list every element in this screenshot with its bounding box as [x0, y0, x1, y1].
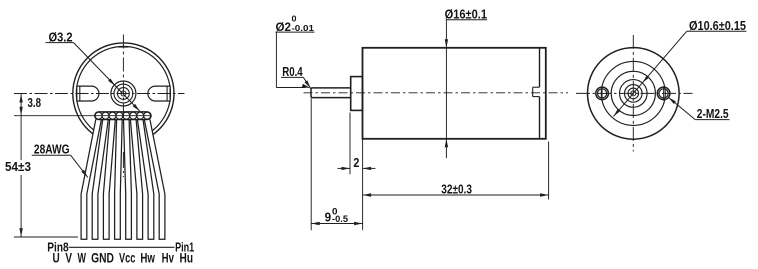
svg-text:Ø10.6±0.15: Ø10.6±0.15	[689, 18, 746, 33]
svg-text:54±3: 54±3	[5, 159, 31, 174]
svg-text:V: V	[65, 251, 72, 266]
svg-text:U: U	[53, 251, 60, 266]
svg-text:9: 9	[325, 210, 332, 225]
svg-text:28AWG: 28AWG	[34, 142, 70, 157]
svg-text:3.8: 3.8	[28, 95, 42, 110]
svg-text:2-M2.5: 2-M2.5	[697, 106, 729, 121]
svg-text:2: 2	[353, 155, 359, 170]
svg-text:-0.01: -0.01	[292, 23, 315, 33]
svg-text:Ø16±0.1: Ø16±0.1	[445, 6, 487, 21]
svg-text:GND: GND	[91, 251, 114, 266]
svg-text:Hw: Hw	[140, 251, 155, 266]
svg-text:-0.5: -0.5	[332, 214, 349, 225]
svg-text:Hv: Hv	[162, 251, 175, 266]
svg-text:W: W	[78, 251, 87, 266]
svg-text:32±0.3: 32±0.3	[441, 182, 472, 197]
svg-text:Hu: Hu	[180, 251, 194, 266]
svg-text:Vcc: Vcc	[119, 251, 136, 266]
svg-text:R0.4: R0.4	[282, 64, 303, 79]
